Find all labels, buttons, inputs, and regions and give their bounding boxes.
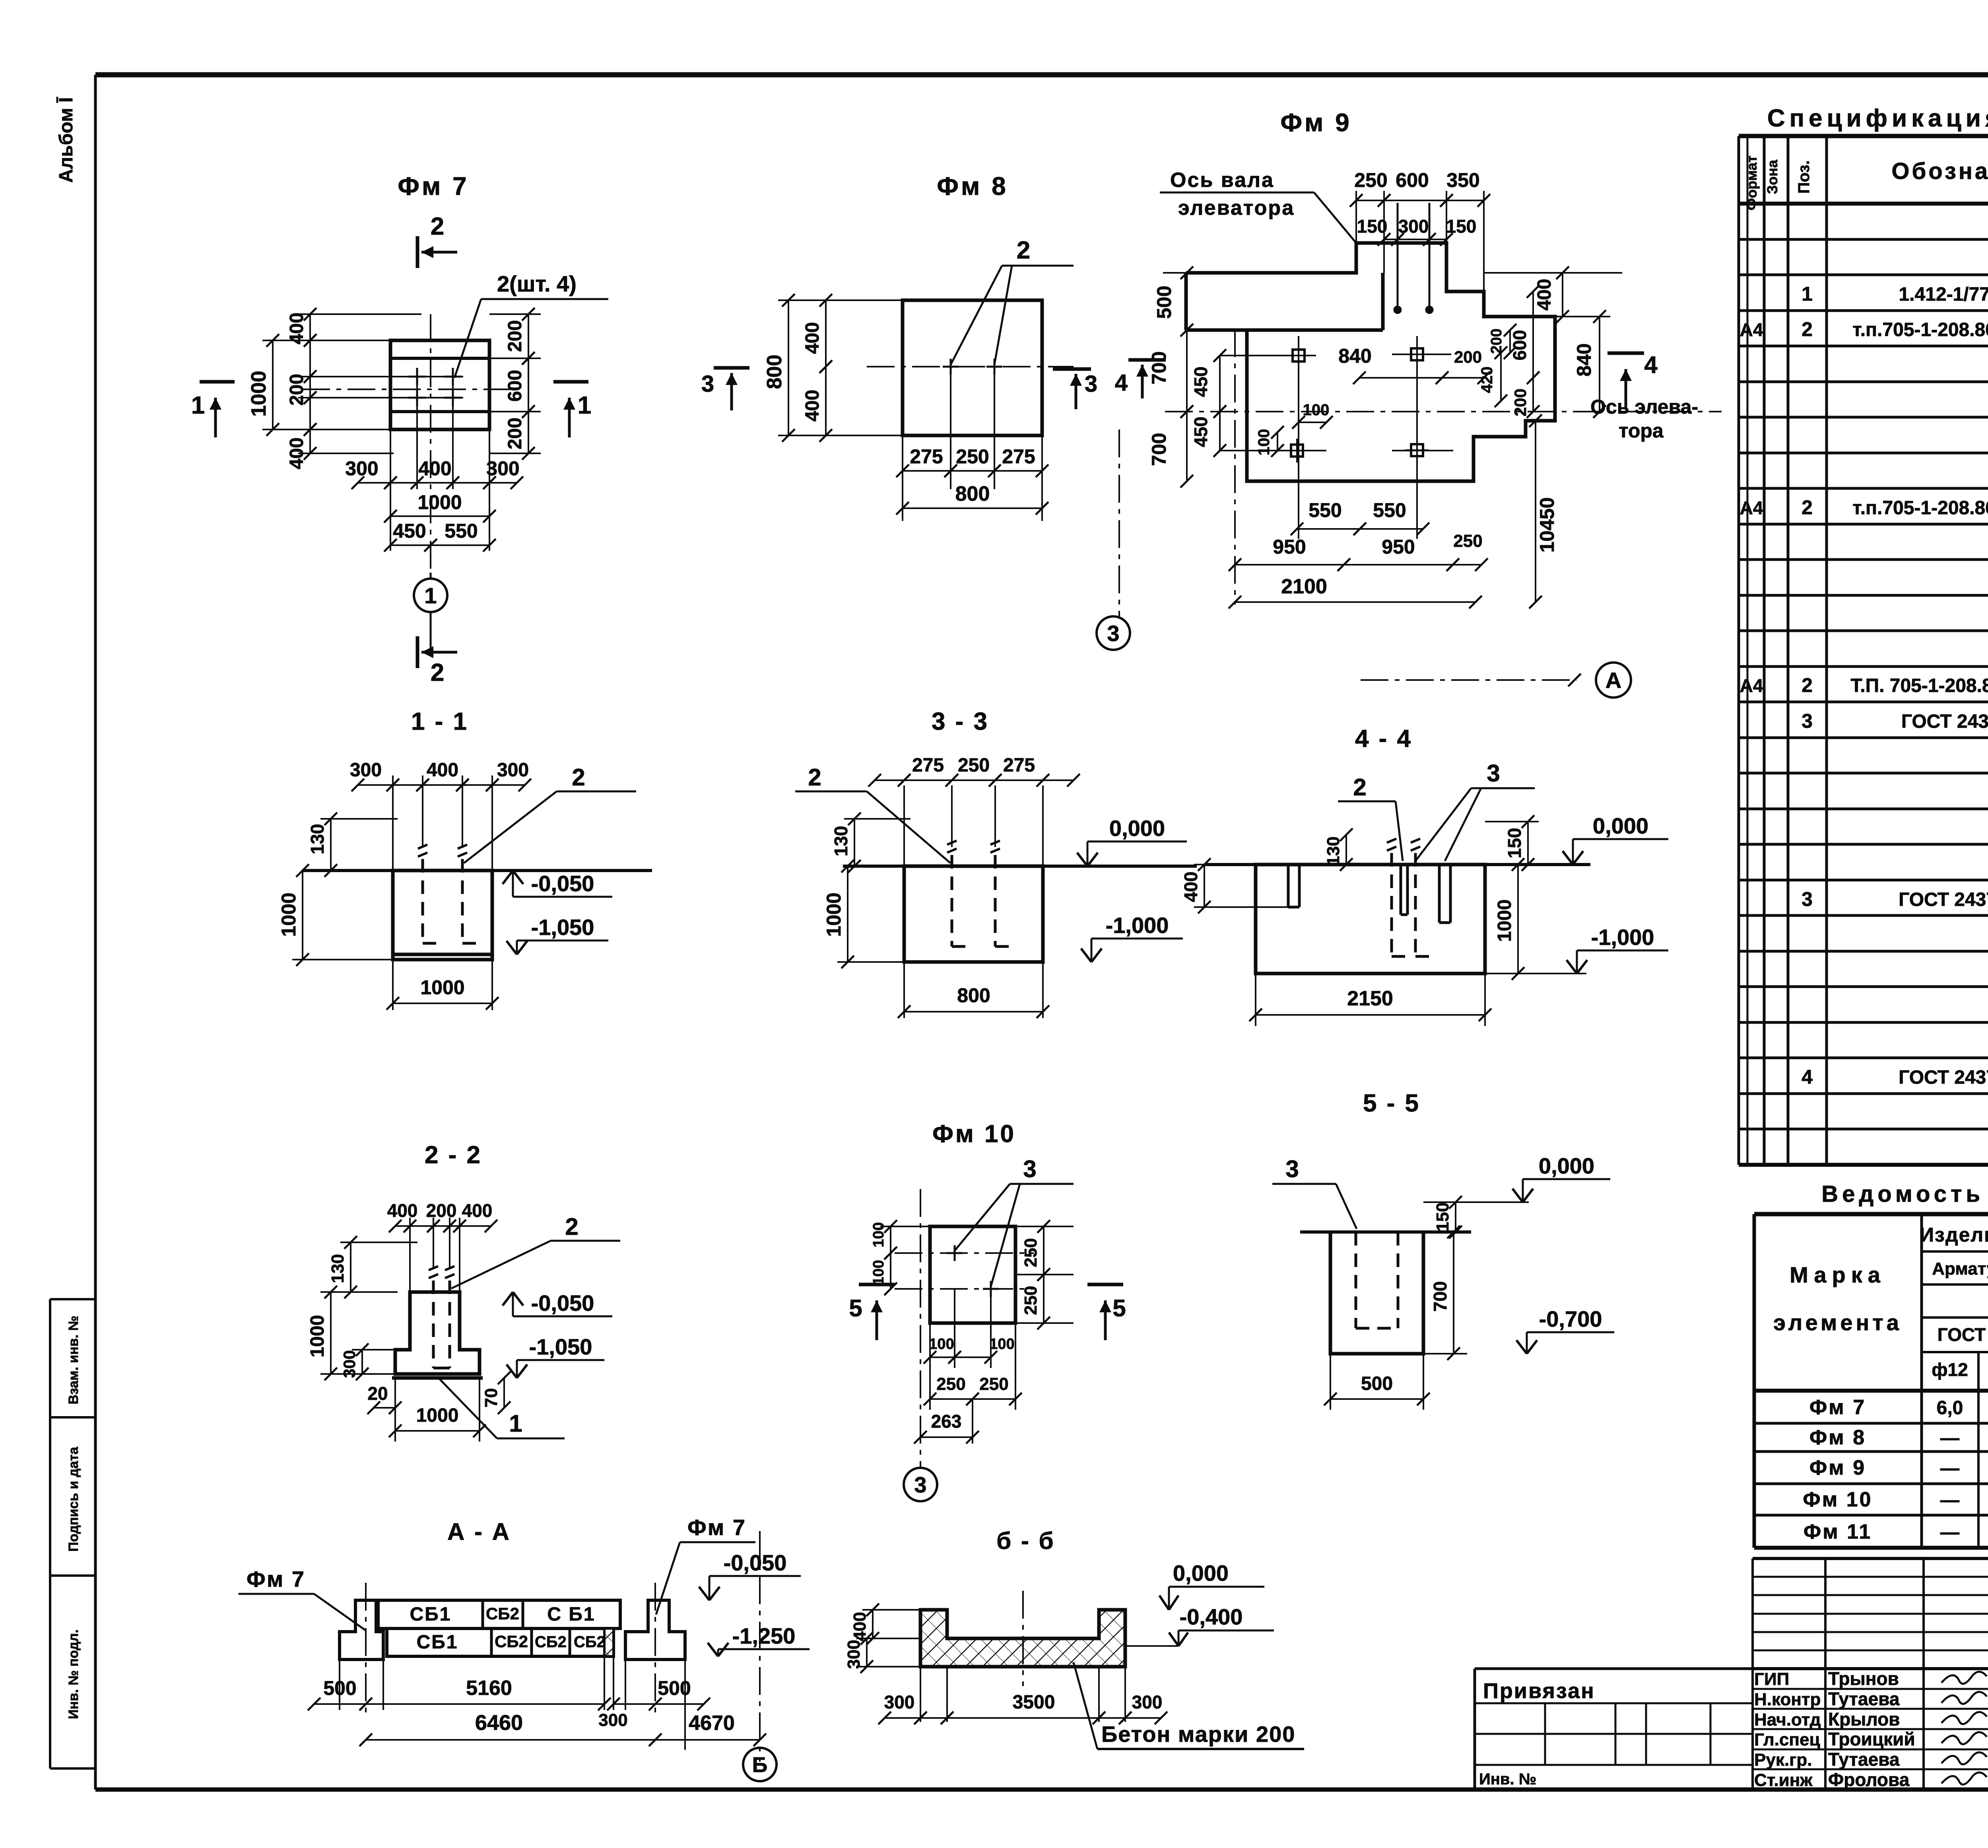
svg-text:5160: 5160 bbox=[466, 1677, 512, 1700]
svg-text:250: 250 bbox=[979, 1374, 1008, 1394]
svg-text:4670: 4670 bbox=[689, 1712, 735, 1735]
svg-text:275: 275 bbox=[1003, 755, 1035, 776]
svg-text:250: 250 bbox=[958, 755, 990, 776]
svg-text:Ось вала: Ось вала bbox=[1170, 169, 1274, 192]
svg-text:150: 150 bbox=[1357, 216, 1388, 237]
svg-text:1: 1 bbox=[578, 392, 591, 419]
svg-text:Б: Б bbox=[752, 1753, 768, 1777]
svg-text:1000: 1000 bbox=[278, 892, 300, 937]
svg-text:-0,050: -0,050 bbox=[531, 1290, 594, 1316]
svg-text:400: 400 bbox=[427, 760, 458, 781]
svg-text:500: 500 bbox=[658, 1677, 691, 1699]
svg-text:2: 2 bbox=[1017, 237, 1030, 264]
svg-text:—: — bbox=[1940, 1458, 1959, 1479]
svg-text:100: 100 bbox=[1303, 401, 1330, 419]
svg-text:-1,050: -1,050 bbox=[531, 915, 594, 940]
svg-text:3500: 3500 bbox=[1013, 1692, 1055, 1713]
svg-text:1: 1 bbox=[191, 392, 205, 419]
svg-text:550: 550 bbox=[1309, 499, 1342, 521]
svg-text:Арматура класса: Арматура класса bbox=[1932, 1259, 1988, 1279]
svg-text:2: 2 bbox=[431, 213, 444, 240]
svg-text:—: — bbox=[1940, 1428, 1959, 1449]
svg-text:200: 200 bbox=[505, 418, 526, 449]
svg-text:1000: 1000 bbox=[247, 371, 270, 417]
svg-text:150: 150 bbox=[1433, 1202, 1452, 1231]
svg-text:150: 150 bbox=[1504, 828, 1525, 859]
svg-text:500: 500 bbox=[1361, 1373, 1393, 1394]
svg-text:Изделия арматурные: Изделия арматурные bbox=[1920, 1224, 1988, 1246]
svg-text:А4: А4 bbox=[1740, 319, 1763, 340]
svg-text:300: 300 bbox=[884, 1692, 915, 1712]
svg-text:250: 250 bbox=[936, 1374, 965, 1394]
svg-text:250: 250 bbox=[1021, 1286, 1041, 1315]
svg-text:70: 70 bbox=[481, 1388, 501, 1408]
svg-text:300: 300 bbox=[486, 457, 519, 480]
svg-text:10450: 10450 bbox=[1536, 497, 1558, 552]
svg-text:элеватора: элеватора bbox=[1178, 196, 1295, 220]
svg-text:А4: А4 bbox=[1740, 675, 1763, 696]
svg-text:3: 3 bbox=[1285, 1156, 1299, 1182]
svg-text:-0,050: -0,050 bbox=[531, 871, 594, 896]
svg-text:СБ2: СБ2 bbox=[535, 1633, 567, 1651]
svg-text:2: 2 bbox=[1802, 674, 1813, 696]
svg-text:4: 4 bbox=[1115, 370, 1128, 396]
svg-text:950: 950 bbox=[1382, 536, 1415, 558]
svg-text:Т.П. 705-1-208.86 КЖ.И.04.00: Т.П. 705-1-208.86 КЖ.И.04.00 bbox=[1850, 675, 1988, 696]
svg-text:250: 250 bbox=[1021, 1238, 1041, 1267]
svg-text:4: 4 bbox=[1644, 352, 1658, 378]
svg-text:0,000: 0,000 bbox=[1173, 1560, 1229, 1586]
svg-text:950: 950 bbox=[1273, 536, 1306, 558]
svg-text:3: 3 bbox=[914, 1472, 926, 1497]
svg-text:200: 200 bbox=[286, 374, 307, 406]
svg-text:100: 100 bbox=[1255, 429, 1273, 456]
svg-text:-1,050: -1,050 bbox=[529, 1334, 592, 1359]
svg-text:800: 800 bbox=[957, 984, 990, 1007]
svg-text:420: 420 bbox=[1478, 367, 1496, 393]
svg-text:275: 275 bbox=[912, 755, 944, 776]
svg-text:600: 600 bbox=[1396, 169, 1429, 191]
svg-text:4: 4 bbox=[1802, 1066, 1813, 1088]
svg-text:275: 275 bbox=[910, 445, 943, 468]
svg-text:1000: 1000 bbox=[416, 1405, 459, 1426]
svg-text:0,000: 0,000 bbox=[1539, 1153, 1594, 1178]
svg-text:1000: 1000 bbox=[1494, 900, 1515, 942]
svg-text:Фролова: Фролова bbox=[1828, 1769, 1910, 1790]
svg-text:130: 130 bbox=[328, 1254, 348, 1283]
svg-text:ГИП: ГИП bbox=[1754, 1669, 1789, 1689]
svg-text:200: 200 bbox=[1454, 348, 1482, 366]
svg-text:5 - 5: 5 - 5 bbox=[1363, 1090, 1420, 1117]
svg-text:Фм 7: Фм 7 bbox=[398, 172, 469, 200]
svg-text:2 - 2: 2 - 2 bbox=[425, 1141, 482, 1169]
svg-text:2: 2 bbox=[1802, 318, 1813, 340]
svg-text:400: 400 bbox=[418, 457, 451, 480]
svg-text:Фм 8: Фм 8 bbox=[937, 172, 1008, 200]
svg-text:600: 600 bbox=[505, 370, 526, 402]
svg-text:3 - 3: 3 - 3 bbox=[932, 708, 989, 735]
svg-text:400: 400 bbox=[802, 322, 823, 354]
svg-text:2: 2 bbox=[565, 1213, 578, 1240]
svg-text:Нач.отд: Нач.отд bbox=[1754, 1710, 1821, 1729]
svg-text:тора: тора bbox=[1619, 420, 1664, 442]
svg-text:Тутаева: Тутаева bbox=[1828, 1749, 1900, 1770]
svg-text:Фм 8: Фм 8 bbox=[1809, 1426, 1866, 1449]
svg-text:Трынов: Трынов bbox=[1828, 1668, 1899, 1689]
svg-text:2(шт. 4): 2(шт. 4) bbox=[497, 271, 577, 296]
svg-text:—: — bbox=[1940, 1522, 1959, 1543]
svg-text:ГОСТ 24379, 1-80: ГОСТ 24379, 1-80 bbox=[1901, 711, 1988, 732]
svg-text:2: 2 bbox=[1353, 774, 1366, 801]
svg-text:Альбом Ī: Альбом Ī bbox=[56, 97, 77, 183]
svg-text:СБ2: СБ2 bbox=[574, 1633, 606, 1651]
svg-text:250: 250 bbox=[1453, 531, 1482, 551]
svg-text:т.п.705-1-208.86. КЖ.И.04.00: т.п.705-1-208.86. КЖ.И.04.00 bbox=[1852, 319, 1988, 340]
svg-text:Фм 10: Фм 10 bbox=[1803, 1488, 1872, 1511]
svg-text:130: 130 bbox=[1324, 836, 1343, 865]
svg-text:А - А: А - А bbox=[447, 1518, 511, 1545]
svg-text:2: 2 bbox=[808, 764, 821, 791]
svg-text:т.п.705-1-208.86. КЖ.И.04.00: т.п.705-1-208.86. КЖ.И.04.00 bbox=[1852, 497, 1988, 519]
svg-text:2: 2 bbox=[431, 659, 444, 686]
svg-text:А4: А4 bbox=[1740, 497, 1763, 518]
svg-text:263: 263 bbox=[931, 1411, 962, 1432]
svg-text:Подпись и дата: Подпись и дата bbox=[66, 1446, 81, 1552]
svg-text:100: 100 bbox=[870, 1260, 887, 1285]
svg-text:400: 400 bbox=[850, 1612, 870, 1641]
svg-text:3: 3 bbox=[1802, 888, 1813, 910]
svg-text:500: 500 bbox=[323, 1677, 356, 1699]
svg-text:Взам. инв. №: Взам. инв. № bbox=[66, 1316, 81, 1404]
svg-text:Фм 7: Фм 7 bbox=[687, 1515, 746, 1540]
svg-text:ГОСТ 24379.1 - 80: ГОСТ 24379.1 - 80 bbox=[1899, 1067, 1988, 1088]
svg-text:-0,050: -0,050 bbox=[724, 1550, 787, 1575]
svg-text:800: 800 bbox=[955, 482, 990, 505]
svg-text:1000: 1000 bbox=[420, 976, 464, 999]
svg-text:Инв. №: Инв. № bbox=[1479, 1770, 1536, 1788]
svg-text:2150: 2150 bbox=[1347, 987, 1393, 1010]
svg-text:550: 550 bbox=[1373, 499, 1406, 521]
svg-text:Гл.спец: Гл.спец bbox=[1754, 1730, 1820, 1749]
svg-text:300: 300 bbox=[1398, 216, 1429, 237]
svg-text:СБ2: СБ2 bbox=[495, 1632, 528, 1651]
svg-text:1.412-1/77, вып. 3: 1.412-1/77, вып. 3 bbox=[1899, 284, 1988, 305]
svg-text:Бетон марки 200: Бетон марки 200 bbox=[1101, 1722, 1295, 1747]
svg-text:3: 3 bbox=[701, 371, 714, 397]
svg-text:А: А bbox=[1606, 668, 1621, 693]
svg-text:700: 700 bbox=[1148, 433, 1170, 466]
svg-text:3: 3 bbox=[1085, 371, 1097, 397]
svg-text:200: 200 bbox=[505, 320, 526, 352]
svg-text:300: 300 bbox=[598, 1710, 627, 1730]
svg-text:300: 300 bbox=[844, 1640, 864, 1669]
svg-text:1: 1 bbox=[1802, 283, 1813, 305]
svg-text:4 - 4: 4 - 4 bbox=[1355, 725, 1412, 752]
svg-text:элемента: элемента bbox=[1773, 1310, 1902, 1335]
svg-text:100: 100 bbox=[989, 1336, 1014, 1352]
svg-text:840: 840 bbox=[1573, 343, 1595, 376]
svg-text:450: 450 bbox=[1190, 367, 1211, 397]
svg-text:Фм 10: Фм 10 bbox=[932, 1120, 1016, 1148]
svg-text:—: — bbox=[1940, 1490, 1959, 1511]
svg-text:3: 3 bbox=[1487, 760, 1500, 787]
svg-text:200: 200 bbox=[1511, 389, 1530, 416]
svg-text:Крылов: Крылов bbox=[1828, 1709, 1900, 1729]
svg-text:0,000: 0,000 bbox=[1593, 813, 1648, 838]
svg-text:400: 400 bbox=[802, 390, 823, 422]
svg-text:6,0: 6,0 bbox=[1937, 1397, 1963, 1419]
svg-text:Поз.: Поз. bbox=[1795, 160, 1813, 194]
svg-text:Обозначение: Обозначение bbox=[1891, 158, 1988, 184]
svg-text:300: 300 bbox=[350, 760, 382, 781]
svg-text:250: 250 bbox=[956, 445, 989, 468]
svg-text:800: 800 bbox=[763, 355, 786, 389]
svg-text:СБ2: СБ2 bbox=[486, 1604, 519, 1623]
svg-text:-1,000: -1,000 bbox=[1106, 913, 1169, 938]
svg-text:250: 250 bbox=[1354, 169, 1387, 191]
svg-text:20: 20 bbox=[367, 1383, 388, 1404]
svg-text:1: 1 bbox=[509, 1410, 522, 1437]
svg-text:б - б: б - б bbox=[996, 1527, 1055, 1554]
svg-text:400: 400 bbox=[1180, 872, 1201, 902]
svg-text:1000: 1000 bbox=[823, 892, 845, 937]
svg-text:300: 300 bbox=[1132, 1692, 1163, 1712]
svg-text:400: 400 bbox=[387, 1200, 418, 1221]
svg-text:-1,250: -1,250 bbox=[732, 1623, 796, 1648]
svg-text:3: 3 bbox=[1023, 1156, 1036, 1182]
svg-text:700: 700 bbox=[1148, 351, 1170, 384]
svg-text:Фм 9: Фм 9 bbox=[1809, 1456, 1866, 1479]
svg-text:600: 600 bbox=[1509, 330, 1530, 361]
svg-text:2100: 2100 bbox=[1281, 575, 1327, 598]
svg-text:Ст.инж: Ст.инж bbox=[1754, 1770, 1813, 1790]
svg-text:-0,700: -0,700 bbox=[1539, 1306, 1602, 1331]
svg-text:400: 400 bbox=[286, 313, 307, 344]
svg-text:1 - 1: 1 - 1 bbox=[411, 708, 468, 735]
svg-text:5: 5 bbox=[1112, 1295, 1126, 1321]
svg-text:Рук.гр.: Рук.гр. bbox=[1754, 1750, 1812, 1770]
svg-text:Спецификация Фундаментов Ф: Спецификация Фундаментов Фм7... Фм 11 bbox=[1767, 105, 1988, 132]
svg-text:Фм 7: Фм 7 bbox=[247, 1566, 305, 1591]
svg-text:Зона: Зона bbox=[1764, 159, 1780, 194]
svg-text:С Б1: С Б1 bbox=[547, 1604, 595, 1625]
svg-text:500: 500 bbox=[1153, 286, 1175, 319]
svg-text:5: 5 bbox=[849, 1295, 862, 1321]
svg-text:130: 130 bbox=[831, 826, 851, 857]
svg-text:300: 300 bbox=[497, 760, 529, 781]
svg-text:400: 400 bbox=[1534, 279, 1555, 311]
svg-text:1000: 1000 bbox=[307, 1315, 328, 1358]
svg-text:Троицкий: Троицкий bbox=[1828, 1729, 1915, 1749]
svg-text:СБ1: СБ1 bbox=[417, 1632, 458, 1653]
svg-text:Привязан: Привязан bbox=[1483, 1679, 1595, 1703]
svg-text:Фм 9: Фм 9 bbox=[1280, 108, 1351, 137]
svg-text:200: 200 bbox=[426, 1200, 457, 1221]
svg-text:1000: 1000 bbox=[417, 491, 462, 513]
svg-text:150: 150 bbox=[1446, 216, 1477, 237]
svg-text:Марка: Марка bbox=[1790, 1262, 1886, 1287]
svg-text:300: 300 bbox=[345, 457, 378, 480]
svg-text:СБ1: СБ1 bbox=[410, 1604, 452, 1625]
svg-text:2: 2 bbox=[572, 764, 585, 791]
svg-text:275: 275 bbox=[1002, 445, 1035, 468]
svg-text:Формат: Формат bbox=[1743, 155, 1760, 210]
svg-text:Ось элева-: Ось элева- bbox=[1590, 396, 1698, 418]
svg-text:130: 130 bbox=[307, 824, 328, 855]
svg-text:1: 1 bbox=[424, 583, 437, 608]
svg-text:2: 2 bbox=[1802, 496, 1813, 519]
svg-text:840: 840 bbox=[1338, 345, 1371, 367]
svg-text:6460: 6460 bbox=[475, 1711, 523, 1735]
svg-text:3: 3 bbox=[1107, 621, 1119, 646]
svg-text:ГОСТ 24379.1 - 80: ГОСТ 24379.1 - 80 bbox=[1899, 889, 1988, 910]
svg-text:550: 550 bbox=[445, 520, 478, 542]
svg-text:-1,000: -1,000 bbox=[1591, 925, 1654, 950]
svg-text:400: 400 bbox=[462, 1200, 493, 1221]
svg-text:ф12: ф12 bbox=[1932, 1359, 1968, 1380]
svg-text:Тутаева: Тутаева bbox=[1828, 1689, 1900, 1709]
svg-text:0,000: 0,000 bbox=[1109, 816, 1165, 841]
svg-text:Ведомость расхода стали н: Ведомость расхода стали на элемент, кг bbox=[1821, 1181, 1988, 1207]
svg-text:Н.контр: Н.контр bbox=[1754, 1690, 1821, 1709]
svg-text:-0,400: -0,400 bbox=[1180, 1604, 1243, 1629]
svg-text:Инв. № подл.: Инв. № подл. bbox=[66, 1629, 81, 1719]
svg-text:Фм 11: Фм 11 bbox=[1804, 1520, 1872, 1543]
svg-text:ГОСТ 5781 - 82*: ГОСТ 5781 - 82* bbox=[1938, 1324, 1988, 1345]
svg-text:3: 3 bbox=[1802, 710, 1813, 732]
svg-text:700: 700 bbox=[1430, 1281, 1450, 1312]
svg-text:Фм 7: Фм 7 bbox=[1809, 1396, 1866, 1419]
svg-text:100: 100 bbox=[929, 1336, 954, 1352]
svg-text:350: 350 bbox=[1446, 169, 1479, 191]
svg-text:450: 450 bbox=[393, 520, 426, 542]
svg-text:450: 450 bbox=[1190, 417, 1211, 447]
